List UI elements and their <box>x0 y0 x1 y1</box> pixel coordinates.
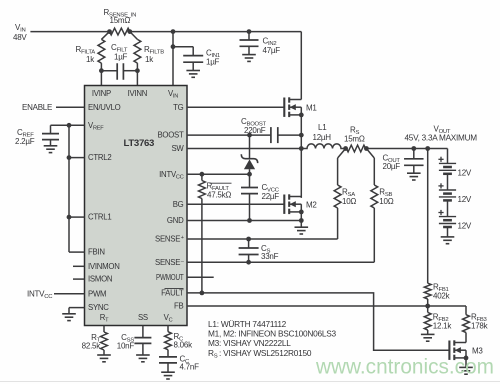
svg-text:SYNC: SYNC <box>88 303 109 312</box>
label B3 value <box>458 222 472 231</box>
svg-text:IVINP: IVINP <box>92 89 111 98</box>
label CBOOST value <box>241 117 267 135</box>
wire PWM <box>54 293 85 295</box>
junction M1 source <box>299 113 304 118</box>
junction CIN2 tap <box>247 29 252 34</box>
resistor RC <box>165 332 172 350</box>
wire M1 rail <box>300 107 302 198</box>
wire VIN pin drop <box>172 32 174 86</box>
ground CREF <box>44 146 58 153</box>
svg-text:12.1k: 12.1k <box>433 322 453 331</box>
svg-text:10Ω: 10Ω <box>379 197 393 206</box>
label M1 <box>306 104 317 113</box>
ground CIN1 <box>186 71 200 78</box>
wire BOOST <box>187 134 271 136</box>
svg-text:FAULT: FAULT <box>161 289 184 298</box>
capacitor CIN1 <box>173 47 203 71</box>
svg-text:L1: WÜRTH 74471112: L1: WÜRTH 74471112 <box>208 319 287 329</box>
junction RFILTA bottom <box>99 68 104 73</box>
junction COUT <box>411 146 416 151</box>
pin SENSE+ label <box>155 235 184 244</box>
svg-text:ISMON: ISMON <box>88 275 112 284</box>
wire CTRL1 <box>69 216 85 218</box>
svg-text:4.7nF: 4.7nF <box>180 363 200 372</box>
svg-text:IVINMON: IVINMON <box>88 262 120 271</box>
svg-text:47.5kΩ: 47.5kΩ <box>207 191 231 200</box>
junction RS right <box>364 146 369 151</box>
wire B1-B2 <box>447 174 449 190</box>
junction CS top <box>246 237 251 242</box>
junction INTVCC-CVCC <box>247 172 252 177</box>
wire ISMON stub <box>73 278 85 280</box>
label CREF value <box>15 128 35 146</box>
note L1 part <box>208 319 287 329</box>
pin SENSE- label <box>155 258 185 267</box>
svg-text:15mΩ: 15mΩ <box>110 16 131 25</box>
svg-text:EN/UVLO: EN/UVLO <box>88 103 121 112</box>
junction RSENSE_IN left <box>107 29 112 34</box>
IC U1 LT3763 body <box>85 86 188 326</box>
svg-text:48V: 48V <box>13 33 27 42</box>
resistor RT <box>101 332 108 350</box>
junction CIN1 tap <box>171 44 176 49</box>
resistor RSENSE_IN <box>110 28 130 35</box>
capacitor CBOOST <box>271 127 301 143</box>
junction M3 source <box>464 356 469 361</box>
junction RFILTB bottom <box>135 68 140 73</box>
label RSB value <box>379 188 393 207</box>
svg-text:SENSE: SENSE <box>155 235 180 244</box>
svg-text:1µF: 1µF <box>206 58 220 67</box>
wire VC pin <box>167 326 169 332</box>
svg-text:+: + <box>181 235 184 241</box>
wire RFAULT to FAULT <box>201 174 203 293</box>
resistor RFILTB <box>130 32 141 71</box>
label M3 <box>472 347 483 356</box>
resistor RS <box>347 145 366 152</box>
wire IVINMON stub <box>73 265 85 267</box>
pin IVINMON label <box>88 262 120 271</box>
label RFILTA value <box>76 45 96 64</box>
svg-text:ENABLE: ENABLE <box>22 103 52 112</box>
svg-text:PWMOUT: PWMOUT <box>156 273 184 282</box>
junction BOOST diode tap <box>247 133 252 138</box>
label L1 value <box>313 123 332 142</box>
svg-text:M1, M2: INFINEON BSC100N06LS3: M1, M2: INFINEON BSC100N06LS3 <box>208 329 336 339</box>
wire M2 gnd stem <box>300 221 302 228</box>
pin CTRL2 label <box>88 153 111 162</box>
svg-text:www.cntronics.com: www.cntronics.com <box>315 356 494 379</box>
svg-text:12V: 12V <box>458 168 472 177</box>
pin TG label <box>173 103 184 112</box>
capacitor CFILT <box>101 63 137 80</box>
junction VREF bus <box>67 123 72 128</box>
svg-text:178k: 178k <box>471 322 489 331</box>
capacitor CC <box>159 350 177 373</box>
junction INTVCC-RFAULT <box>200 172 205 177</box>
inductor L1 <box>301 144 345 149</box>
capacitor CS <box>239 239 259 262</box>
node VOUT label <box>405 125 478 143</box>
junction RS left <box>343 146 348 151</box>
ground CSS <box>136 355 150 362</box>
junction CTRL1 <box>67 215 72 220</box>
svg-text:82.5k: 82.5k <box>82 342 102 351</box>
svg-text:IVINN: IVINN <box>128 89 148 98</box>
wire TG to M1 gate <box>187 106 284 108</box>
wire IVINN pin <box>136 71 138 86</box>
resistor RSB <box>366 149 377 263</box>
junction FB node <box>425 304 430 309</box>
wire M2 source to GND <box>300 204 302 220</box>
label CC value <box>180 355 200 372</box>
pin GND label <box>167 216 184 225</box>
resistor RFAULT <box>199 181 206 199</box>
label B3 plus <box>438 210 443 215</box>
label CVCC value <box>262 183 280 201</box>
capacitor CSS <box>134 338 151 355</box>
wire CTRL2 <box>69 157 85 159</box>
resistor RSA <box>334 149 345 240</box>
svg-text:10Ω: 10Ω <box>342 197 356 206</box>
label B1 plus <box>438 157 443 162</box>
ground battery <box>441 237 455 244</box>
svg-text:BOOST: BOOST <box>157 131 184 140</box>
label RC value <box>174 332 194 350</box>
capacitor CVCC <box>241 174 258 220</box>
label B2 plus <box>438 183 443 188</box>
pin SW label <box>171 144 184 153</box>
pin IVINN label <box>128 89 148 98</box>
diode DBOOST schottky <box>241 135 257 174</box>
wire PWMOUT stub <box>187 276 214 278</box>
svg-text:SS: SS <box>138 313 148 322</box>
junction CVCC-GND <box>247 218 252 223</box>
label RFB1 value <box>433 283 451 301</box>
wire battery stem <box>447 149 449 164</box>
svg-text:M1: M1 <box>306 104 317 113</box>
ground CC <box>161 372 175 379</box>
pin CTRL1 label <box>88 213 111 222</box>
wire IVINP pin <box>100 71 102 86</box>
battery B3 12V <box>439 217 456 227</box>
transistor M3 <box>449 340 466 360</box>
svg-text:12µH: 12µH <box>313 133 332 142</box>
pin BG label <box>173 200 184 209</box>
capacitor CIN2 <box>240 32 259 55</box>
junction M2-GND <box>299 218 304 223</box>
svg-text:PWM: PWM <box>88 289 106 298</box>
svg-text:47µF: 47µF <box>263 46 281 55</box>
wire SW <box>187 148 301 150</box>
wire VIN rail to M1 drain <box>130 32 301 100</box>
ground RFB2 <box>421 334 435 341</box>
label B1 value <box>458 168 472 177</box>
junction M2 source <box>299 210 304 215</box>
svg-text:2.2µF: 2.2µF <box>15 137 35 146</box>
label CIN1 value <box>206 49 220 67</box>
label B2 value <box>458 195 472 204</box>
note RS part <box>208 348 312 360</box>
wire RFB1 drop <box>427 149 429 284</box>
ground RT <box>97 355 111 362</box>
wire INTVCC <box>187 173 250 175</box>
svg-text:CTRL2: CTRL2 <box>88 153 111 162</box>
wire B3 to ground <box>447 227 449 237</box>
label CFILT value <box>111 43 128 62</box>
svg-text:1k: 1k <box>145 55 154 64</box>
wire RT to ground <box>103 350 105 355</box>
svg-text:SW: SW <box>171 144 184 153</box>
pin SS label <box>138 313 148 322</box>
svg-text:FBIN: FBIN <box>88 248 105 257</box>
pin FBIN label <box>88 248 105 257</box>
svg-text:10nF: 10nF <box>117 342 135 351</box>
bottom hairline <box>0 381 500 383</box>
junction CTRL2 <box>67 155 72 160</box>
junction SW node <box>299 146 304 151</box>
label RSENSE_IN value <box>104 8 137 25</box>
battery B2 12V <box>439 190 456 200</box>
pin INTVCC label <box>159 170 184 181</box>
junction RSENSE_IN right <box>127 29 132 34</box>
wire SS pin <box>142 326 144 338</box>
svg-text:15mΩ: 15mΩ <box>344 135 365 144</box>
pin RT label <box>100 313 109 324</box>
label RS value <box>344 126 365 144</box>
wire FBIN <box>69 251 85 253</box>
junction VIN pin branch <box>171 29 176 34</box>
svg-text:12V: 12V <box>458 222 472 231</box>
ground CIN2 <box>242 55 256 62</box>
pin VREF label <box>88 121 104 132</box>
svg-text:12V: 12V <box>458 195 472 204</box>
ground M2 <box>295 227 309 234</box>
watermark <box>315 356 494 379</box>
wire SENSE- <box>187 261 374 263</box>
note M1 M2 part <box>208 329 336 339</box>
pin BOOST label <box>157 131 184 140</box>
svg-text:20µF: 20µF <box>383 162 401 171</box>
wire ENABLE to EN/UVLO <box>56 106 85 108</box>
svg-text:8.06k: 8.06k <box>174 341 194 350</box>
ground COUT <box>407 173 421 180</box>
resistor RFILTA <box>98 32 110 71</box>
wire VREF <box>51 124 85 126</box>
svg-text:TG: TG <box>173 103 184 112</box>
pin VIN label <box>168 89 178 100</box>
transistor M1 <box>284 97 301 117</box>
pin PWM label <box>88 289 106 298</box>
junction CS bottom <box>246 260 251 265</box>
label RFILTB value <box>144 45 164 64</box>
label RSA value <box>342 188 356 207</box>
svg-text:M2: M2 <box>306 201 317 210</box>
label CIN2 value <box>263 37 281 56</box>
note M3 part <box>208 338 291 348</box>
svg-text:FB: FB <box>174 302 184 311</box>
wire VREF-CTRL bus <box>68 125 70 252</box>
pin PWMOUT label <box>156 273 184 282</box>
label RFB3 value <box>471 313 489 331</box>
label CS value <box>261 244 279 261</box>
label RFAULT value <box>207 182 232 200</box>
node INTVCC at PWM <box>27 290 53 301</box>
wire VIN rail top <box>30 31 109 33</box>
junction battery feed <box>425 146 430 151</box>
svg-text:GND: GND <box>167 216 184 225</box>
wire RT pin <box>103 326 105 333</box>
label RT value <box>82 333 102 351</box>
wire GND pin <box>187 220 301 222</box>
svg-text:45V, 3.3A MAXIMUM: 45V, 3.3A MAXIMUM <box>405 134 478 143</box>
svg-text:M3: M3 <box>472 347 483 356</box>
transistor M2 <box>284 194 301 214</box>
junction FAULT-RFAULT <box>200 291 205 296</box>
svg-text:L1: L1 <box>318 123 327 132</box>
label CSS value <box>117 333 135 351</box>
capacitor CREF <box>42 125 59 146</box>
wire SYNC <box>69 308 85 314</box>
wire FB to RFB3 <box>428 306 466 315</box>
label IC part number LT3763 <box>124 138 155 149</box>
wire RFB1 to FB <box>427 299 429 306</box>
wire M3 source to ground <box>465 350 467 367</box>
svg-text:BG: BG <box>173 200 184 209</box>
node ENABLE label <box>22 103 52 112</box>
label RFB2 value <box>433 313 453 331</box>
wire FB <box>187 305 428 307</box>
label COUT value <box>383 154 401 172</box>
svg-text:LT3763: LT3763 <box>124 138 155 149</box>
wire FAULT to M3 gate <box>187 293 449 350</box>
pin ISMON label <box>88 275 112 284</box>
svg-text:: VISHAY WSL2512R0150: : VISHAY WSL2512R0150 <box>219 348 312 358</box>
wire B2-B3 <box>447 200 449 216</box>
junction CBOOST right <box>299 133 304 138</box>
resistor RFB3 <box>463 315 470 333</box>
ground M3 <box>459 367 473 374</box>
svg-text:220nF: 220nF <box>244 126 266 135</box>
svg-text:1k: 1k <box>86 55 95 64</box>
wire output rail <box>366 148 447 150</box>
svg-text:CTRL1: CTRL1 <box>88 213 111 222</box>
wire RFB3 to M3 drain <box>465 333 467 343</box>
resistor RFB2 <box>424 306 431 334</box>
svg-text:1µF: 1µF <box>114 53 128 62</box>
svg-text:402k: 402k <box>433 292 451 301</box>
node VIN input label <box>13 23 27 42</box>
svg-text:22µF: 22µF <box>262 192 280 201</box>
pin FAULT label <box>161 289 184 298</box>
battery B1 12V <box>439 163 456 173</box>
svg-text:M3: VISHAY VN2222LL: M3: VISHAY VN2222LL <box>208 338 291 348</box>
pin EN/UVLO label <box>88 103 121 112</box>
pin SYNC label <box>88 303 109 312</box>
pin FB label <box>174 302 184 311</box>
resistor RFB1 <box>424 283 431 299</box>
ground SYNC <box>62 314 76 321</box>
svg-text:33nF: 33nF <box>261 252 279 261</box>
wire SENSE+ <box>187 238 338 240</box>
label M2 <box>306 201 317 210</box>
wire BG to M2 gate <box>187 203 284 205</box>
svg-text:SENSE: SENSE <box>155 258 180 267</box>
pin VC label <box>164 313 173 324</box>
capacitor COUT <box>404 149 424 174</box>
pin IVINP label <box>92 89 111 98</box>
